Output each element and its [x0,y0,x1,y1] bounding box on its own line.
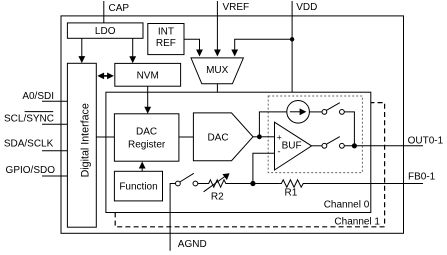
wire to OUT pin [344,145,423,147]
wire R1 to FB pin [307,183,423,185]
svg-text:SCL/SYNC: SCL/SYNC [4,114,54,125]
wire DI to DAC Register [96,136,114,138]
wire MUX to DAC arrow [216,84,218,106]
pin CAP wire [103,1,105,23]
wire DAC Register to DAC [179,136,194,138]
resistor R2 (variable) [207,180,228,187]
svg-text:SDA/SCLK: SDA/SCLK [4,138,54,149]
node DAC output [257,134,262,139]
wire switch to R2 [198,183,207,185]
svg-text:A0/SDI: A0/SDI [22,91,54,102]
wire GPIO/SDO [42,175,67,177]
wire node up to current source [259,112,286,137]
node feedback [250,181,255,186]
NVM box [115,63,181,86]
svg-text:FB0-1: FB0-1 [408,172,436,183]
switch S3 (R2 leg) [176,181,181,186]
svg-text:BUF: BUF [282,140,302,151]
arrow NVM to DAC Register [147,86,149,107]
channel 1 dashed box [115,103,384,227]
BUF op-amp triangle [275,122,312,170]
svg-text:DAC: DAC [207,132,228,143]
current source circle [287,101,310,124]
svg-text:CAP: CAP [109,3,130,14]
svg-text:NVM: NVM [137,70,159,81]
LDO regulator box [67,23,143,38]
wire current source to switch [309,111,322,113]
svg-text:Digital Interface: Digital Interface [80,103,92,177]
wire node to R1 [253,183,280,185]
svg-text:LDO: LDO [95,26,116,37]
svg-text:-: - [278,146,281,156]
wire BUF- feedback riser [253,153,275,183]
svg-text:Function: Function [119,182,157,193]
svg-text:AGND: AGND [178,239,207,250]
bidirectional arrow DI-NVM [101,75,111,77]
svg-text:INT: INT [158,27,174,38]
Function box [114,171,162,201]
wire node to BUF+ [259,136,274,138]
Digital Interface box [67,63,96,227]
svg-text:OUT0-1: OUT0-1 [408,136,444,147]
wire A0/SDI [42,100,67,102]
svg-text:Channel 0: Channel 0 [324,200,370,211]
channel 0 solid box [106,92,371,212]
outer chip boundary box [61,16,404,233]
svg-text:VREF: VREF [223,2,250,13]
wire LDO to Digital Interface arrow [81,38,83,56]
wire R2 to node [228,183,253,185]
svg-text:Register: Register [128,139,166,150]
wire switch to out node [344,112,354,146]
switch S2 (output) [322,143,327,148]
wire LDO to NVM arrow [132,38,134,56]
switch S1 (current source) [322,110,327,115]
svg-text:MUX: MUX [206,65,229,76]
wire AGND riser [170,184,176,251]
junction dot on VDD [290,37,294,41]
wire SCL/SYNC [42,123,67,125]
svg-text:Channel 1: Channel 1 [334,216,380,227]
svg-text:REF: REF [156,38,176,49]
svg-text:DAC: DAC [136,127,157,138]
wire SDA/SCLK [42,150,67,152]
arrow Function to DAC Register [141,168,143,171]
DAC pentagon [193,113,253,161]
pin VREF wire [216,1,218,50]
svg-text:VDD: VDD [296,2,317,13]
wire BUF output to switch [312,145,322,147]
pin VDD wire [291,1,293,97]
dotted power-down box [268,96,362,173]
INT REF box [148,24,184,55]
node output [352,143,357,148]
arrowhead VDD branch into MUX [231,50,238,57]
arrowhead VREF into MUX [214,50,221,57]
svg-text:R2: R2 [211,192,224,203]
resistor R1 [279,180,307,187]
DAC Register box [114,114,178,161]
arrowhead INT REF into MUX [196,50,203,57]
MUX trapezoid [191,58,243,84]
svg-text:R1: R1 [285,188,298,199]
svg-text:GPIO/SDO: GPIO/SDO [6,165,56,176]
wire VDD branch to MUX [235,39,292,50]
wire DAC tip to node [253,136,259,138]
wire INT REF output to MUX [184,39,200,50]
